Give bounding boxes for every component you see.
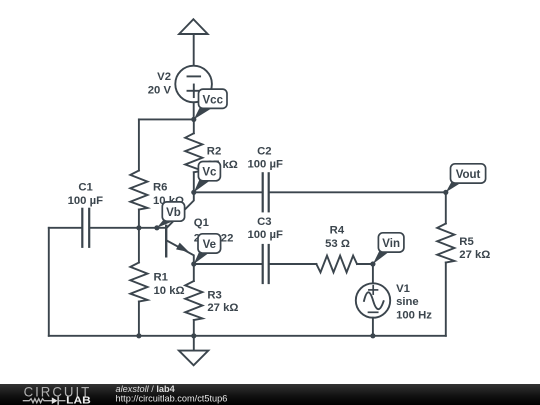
- label R2 value: [207, 145, 238, 171]
- svg-text:R2: R2: [207, 145, 221, 157]
- label R1 value: [154, 271, 185, 296]
- svg-text:C2: C2: [257, 145, 271, 157]
- label R4 value: [325, 224, 350, 250]
- footer logo resistor squiggle and diode: [23, 397, 64, 404]
- svg-text:R5: R5: [459, 236, 473, 248]
- svg-text:27 kΩ: 27 kΩ: [207, 302, 238, 314]
- net flag Vcc: [194, 89, 227, 119]
- wire down to R6 top: [138, 119, 140, 170]
- label R3 value: [207, 289, 238, 314]
- node junction dots: [136, 117, 448, 339]
- svg-text:R1: R1: [154, 271, 168, 283]
- footer logo CIRCUIT: [24, 383, 92, 399]
- power supply arrow Vcc symbol: [179, 19, 208, 66]
- wire left loop down: [48, 228, 50, 336]
- svg-text:R3: R3: [207, 289, 221, 301]
- svg-text:R6: R6: [153, 182, 167, 194]
- svg-text:100 µF: 100 µF: [247, 229, 282, 241]
- svg-text:Vout: Vout: [456, 169, 481, 181]
- wire V2 bottom to node Vcc: [193, 102, 195, 119]
- svg-text:C1: C1: [78, 182, 92, 194]
- label R5 value: [459, 236, 490, 261]
- wire C2 to node Vout: [270, 191, 446, 193]
- resistor R3: [185, 264, 202, 336]
- label R6 value: [153, 182, 184, 208]
- footer user and title: [116, 384, 228, 403]
- net flag Vout: [446, 164, 486, 193]
- wire bottom rail: [49, 335, 446, 337]
- footer bar: [0, 384, 540, 405]
- svg-text:Ve: Ve: [203, 239, 216, 251]
- net flag Vin: [373, 233, 404, 264]
- svg-text:Q1: Q1: [194, 217, 209, 229]
- capacitor C2: [263, 173, 269, 211]
- wire C1 node to Q1 base: [139, 227, 166, 229]
- footer logo LAB: [66, 396, 91, 405]
- label Q1 2N2222: [194, 217, 234, 244]
- voltage source V2: [175, 66, 212, 103]
- svg-text:R4: R4: [330, 224, 345, 236]
- resistor R5: [437, 192, 454, 335]
- svg-text:100 µF: 100 µF: [247, 159, 282, 171]
- resistor R4: [316, 256, 373, 273]
- capacitor C3: [263, 245, 269, 283]
- wire upper net node to C2: [194, 191, 262, 193]
- resistor R1: [130, 228, 147, 336]
- svg-text:Vc: Vc: [202, 167, 217, 179]
- wire node Vcc horizontal to R6 column: [139, 118, 194, 120]
- svg-text:53 Ω: 53 Ω: [325, 238, 350, 250]
- wire C3 to R4: [270, 263, 317, 265]
- net flag Ve: [194, 234, 221, 264]
- ground: [179, 336, 208, 366]
- label C3 value: [247, 216, 282, 241]
- label C2 value: [247, 145, 282, 170]
- capacitor C1: [49, 209, 139, 247]
- svg-text:10 kΩ: 10 kΩ: [154, 285, 185, 297]
- svg-text:27 kΩ: 27 kΩ: [459, 249, 490, 261]
- svg-text:Vcc: Vcc: [203, 94, 224, 106]
- net flag Vb: [157, 202, 185, 228]
- svg-text:http://circuitlab.com/ct5tup6: http://circuitlab.com/ct5tup6: [116, 393, 228, 403]
- wire emitter node to C3: [194, 263, 262, 265]
- voltage source V1: [356, 264, 390, 336]
- label C1 value: [68, 182, 103, 208]
- label V1 sine 100 Hz: [396, 283, 432, 321]
- svg-text:V1: V1: [396, 283, 410, 295]
- label V2 20 V: [148, 71, 172, 96]
- svg-text:sine: sine: [396, 296, 419, 308]
- resistor R2: [185, 119, 202, 192]
- transistor Q1: [166, 192, 194, 264]
- svg-text:LAB: LAB: [66, 396, 91, 405]
- svg-text:20 V: 20 V: [148, 85, 172, 97]
- svg-text:100 µF: 100 µF: [68, 195, 103, 207]
- svg-text:V2: V2: [157, 71, 171, 83]
- svg-text:Vin: Vin: [382, 238, 400, 250]
- svg-text:C3: C3: [257, 216, 271, 228]
- svg-text:100 Hz: 100 Hz: [396, 309, 432, 321]
- resistor R6: [130, 171, 147, 228]
- net flag Vc: [194, 162, 221, 193]
- svg-text:Vb: Vb: [166, 207, 181, 219]
